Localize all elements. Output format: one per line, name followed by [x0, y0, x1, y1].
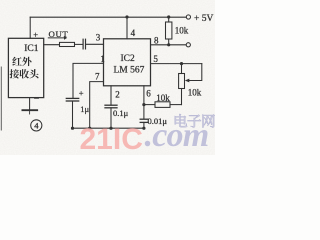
svg-text:IC1: IC1	[24, 44, 39, 54]
svg-text:10k: 10k	[156, 93, 170, 103]
svg-text:8: 8	[154, 35, 159, 45]
svg-text:+: +	[79, 88, 84, 98]
svg-text:OUT: OUT	[49, 29, 69, 39]
svg-text:+ 5V: + 5V	[194, 14, 213, 24]
svg-text:3: 3	[96, 33, 101, 43]
svg-text:LM 567: LM 567	[114, 65, 145, 75]
svg-text:5: 5	[153, 54, 158, 64]
svg-text:1μ: 1μ	[80, 104, 89, 114]
svg-text:10k: 10k	[175, 26, 189, 36]
svg-text:4: 4	[131, 28, 136, 38]
svg-text:1: 1	[100, 54, 105, 64]
svg-text:+: +	[33, 29, 38, 39]
svg-text:IC2: IC2	[121, 54, 136, 64]
svg-text:.com: .com	[145, 117, 209, 154]
svg-text:2: 2	[115, 89, 120, 99]
svg-text:10k: 10k	[188, 87, 202, 97]
svg-text:7: 7	[95, 72, 100, 82]
svg-text:4: 4	[34, 121, 39, 131]
svg-text:6: 6	[146, 88, 151, 98]
svg-text:21IC: 21IC	[80, 123, 143, 155]
svg-text:0.1μ: 0.1μ	[113, 108, 129, 118]
